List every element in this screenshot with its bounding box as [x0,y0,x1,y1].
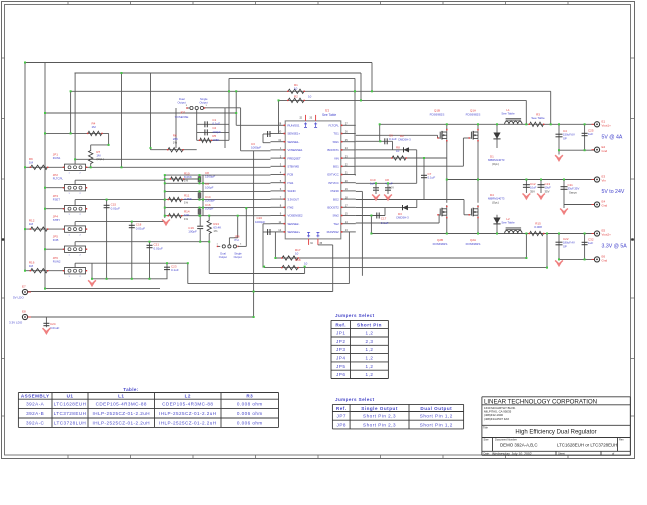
svg-text:Gnd: Gnd [602,259,608,263]
svg-text:Dual: Dual [179,97,185,101]
svg-text:L2: L2 [185,394,191,399]
svg-text:Rev: Rev [619,438,624,442]
svg-text:JP8: JP8 [337,422,346,427]
svg-text:IHLP-2525CZ-01-2.2uH: IHLP-2525CZ-01-2.2uH [92,420,150,425]
svg-text:105K: 105K [212,138,219,142]
svg-text:JP5: JP5 [336,364,345,369]
svg-text:STBY: STBY [53,218,60,222]
svg-text:1%: 1% [184,201,189,205]
svg-text:RUN1: RUN1 [53,156,61,160]
svg-text:BG2: BG2 [333,197,339,201]
svg-text:CMDSH-3: CMDSH-3 [396,216,409,220]
svg-text:FCB: FCB [53,238,59,242]
svg-text:1,2: 1,2 [366,347,374,352]
svg-text:1,2: 1,2 [366,364,374,369]
svg-text:5V @ 4A: 5V @ 4A [602,135,623,141]
svg-text:0.006 ohm: 0.006 ohm [237,411,263,416]
svg-text:1000pF: 1000pF [251,146,261,150]
svg-text:SENSE2+: SENSE2+ [287,230,300,234]
svg-text:Short Pin 2,3: Short Pin 2,3 [363,422,396,427]
svg-text:IHLP-2525CZ-01-2.2uH: IHLP-2525CZ-01-2.2uH [159,420,217,425]
svg-text:Ref.: Ref. [336,406,347,411]
svg-text:2,3: 2,3 [366,339,374,344]
svg-text:1500pF: 1500pF [205,175,215,179]
svg-text:VIN: VIN [334,156,339,160]
svg-text:Output: Output [219,255,227,259]
svg-text:0.008 ohm: 0.008 ohm [237,402,263,407]
svg-text:35V: 35V [530,189,535,193]
svg-text:Sheet: Sheet [558,451,565,455]
svg-text:FCB: FCB [287,173,293,177]
svg-text:PGND: PGND [331,189,340,193]
svg-text:CDEP105-4R3MC-88: CDEP105-4R3MC-88 [96,402,147,407]
svg-text:3.3V @ 5A: 3.3V @ 5A [602,244,628,250]
svg-text:100pF: 100pF [212,130,221,134]
svg-text:Document Number: Document Number [495,438,517,442]
svg-text:VOSENSE: VOSENSE [175,115,189,119]
svg-text:FLTCPL: FLTCPL [329,124,340,128]
svg-text:(Opt.): (Opt.) [96,157,104,161]
svg-text:of: of [612,451,614,455]
svg-text:CMDSH-3: CMDSH-3 [398,138,411,142]
svg-text:1,2: 1,2 [366,331,374,336]
svg-text:JP4: JP4 [336,355,345,360]
svg-text:FLTCPL: FLTCPL [53,176,64,180]
svg-text:Vin: Vin [602,179,607,183]
svg-text:VOSENSE1: VOSENSE1 [287,148,302,152]
svg-text:IHLP-2525CZ-01-2.2uH: IHLP-2525CZ-01-2.2uH [92,411,150,416]
svg-text:FDS6982S: FDS6982S [433,242,448,246]
svg-text:Single: Single [234,252,242,256]
svg-text:Title: Title [483,425,488,429]
svg-text:35V: 35V [545,189,550,193]
svg-text:INTVCC: INTVCC [328,181,339,185]
svg-text:10: 10 [295,252,299,256]
svg-text:STBYMD: STBYMD [287,165,300,169]
svg-text:1uF: 1uF [588,132,593,136]
svg-text:E8: E8 [22,310,26,314]
svg-text:CDEP105-4R3MC-88: CDEP105-4R3MC-88 [162,402,213,407]
svg-text:Single: Single [200,97,208,101]
svg-text:(408)434-0507 FAX: (408)434-0507 FAX [484,417,509,421]
svg-text:See Table: See Table [501,112,515,116]
svg-text:See Table: See Table [501,221,515,225]
svg-text:JP7: JP7 [180,111,186,115]
svg-text:10: 10 [308,94,312,98]
svg-text:0.01uF: 0.01uF [136,226,146,230]
svg-text:Dual: Dual [220,252,226,256]
svg-text:10: 10 [396,149,400,153]
svg-text:100pF: 100pF [188,230,197,234]
svg-text:Jumpers Select: Jumpers Select [335,397,375,402]
svg-text:Date:: Date: [484,451,490,455]
svg-text:1000pF: 1000pF [255,220,265,224]
svg-text:BG1: BG1 [333,165,339,169]
svg-text:1uF: 1uF [370,182,375,186]
svg-text:FSET: FSET [53,197,60,201]
svg-text:1,2: 1,2 [366,372,374,377]
svg-text:1M: 1M [92,125,97,129]
svg-text:RUN/SS2: RUN/SS2 [327,230,339,234]
svg-text:Ref.: Ref. [335,323,346,328]
svg-text:U1: U1 [67,394,74,399]
svg-text:See Table: See Table [531,116,545,120]
svg-text:Output: Output [178,100,186,104]
svg-text:0.1uF: 0.1uF [428,176,436,180]
svg-text:FDS6982S: FDS6982S [430,112,445,116]
svg-text:JP7: JP7 [337,414,346,419]
svg-text:LTC3728LUH: LTC3728LUH [54,420,86,425]
svg-text:C17: C17 [381,216,387,220]
svg-text:JP3: JP3 [336,347,345,352]
svg-text:See Table: See Table [322,113,336,117]
svg-text:1000pF: 1000pF [205,199,215,203]
svg-text:BOOST1: BOOST1 [327,148,339,152]
svg-text:1M: 1M [29,264,34,268]
svg-text:0.1uF: 0.1uF [171,268,179,272]
svg-text:LTC3728EUH: LTC3728EUH [54,411,87,416]
svg-text:10V: 10V [389,185,394,189]
svg-text:0.008: 0.008 [534,225,542,229]
svg-text:Wednesday, July 10, 2002: Wednesday, July 10, 2002 [492,452,532,456]
svg-text:Single Output: Single Output [361,406,398,411]
svg-text:1M: 1M [29,222,34,226]
svg-text:RUN/SS1: RUN/SS1 [287,124,299,128]
svg-text:SP: SP [563,136,567,140]
svg-text:High Efficiency Dual Regulator: High Efficiency Dual Regulator [515,430,596,436]
svg-text:JP6: JP6 [336,372,345,377]
svg-text:0.1uF: 0.1uF [212,122,220,126]
svg-text:392A-A: 392A-A [26,402,45,407]
svg-text:Table:: Table: [123,387,139,392]
svg-text:ITH1: ITH1 [287,181,293,185]
svg-text:TG1: TG1 [333,132,339,136]
svg-text:100pF: 100pF [205,207,214,211]
svg-text:FREQSET: FREQSET [287,156,300,160]
svg-text:0.01uF: 0.01uF [154,246,164,250]
svg-text:Short Pin 1,2: Short Pin 1,2 [420,414,453,419]
svg-text:Size: Size [484,438,490,442]
svg-text:1,2: 1,2 [366,355,374,360]
svg-text:BOOST2: BOOST2 [327,206,339,210]
svg-text:LINEAR TECHNOLOGY CORPORATION: LINEAR TECHNOLOGY CORPORATION [484,399,597,406]
svg-text:FDS6982S: FDS6982S [466,242,481,246]
svg-text:1M: 1M [29,160,34,164]
svg-text:Short Pin 1,2: Short Pin 1,2 [420,422,453,427]
svg-text:RUN2: RUN2 [53,259,61,263]
svg-text:JP2: JP2 [336,339,345,344]
svg-text:SENSE2-: SENSE2- [287,222,299,226]
svg-text:IHLP-2525CZ-01-2.2uH: IHLP-2525CZ-01-2.2uH [159,411,217,416]
svg-text:FDS6982S: FDS6982S [466,112,481,116]
svg-text:5V to 24V: 5V to 24V [602,189,625,195]
svg-text:TG2: TG2 [333,222,339,226]
svg-text:LTC1628EUH or LTC3728EUH: LTC1628EUH or LTC3728EUH [557,442,617,447]
svg-text:Short Pin 2,3: Short Pin 2,3 [363,414,396,419]
svg-text:R2: R2 [294,94,298,98]
svg-text:VOSENSE2: VOSENSE2 [287,214,302,218]
svg-text:0.1uF: 0.1uF [381,221,389,225]
svg-text:SENSE1+: SENSE1+ [287,132,300,136]
svg-text:Vout2+: Vout2+ [602,233,612,237]
svg-text:0.1uF: 0.1uF [389,137,397,141]
svg-text:(Opt.): (Opt.) [492,200,499,204]
svg-text:EXTVCC: EXTVCC [327,173,339,177]
svg-text:ITH: ITH [234,238,239,242]
svg-text:U1: U1 [325,109,329,113]
svg-text:3.3V LDO: 3.3V LDO [9,321,23,325]
svg-text:1uF: 1uF [588,241,593,245]
svg-text:Short Pin: Short Pin [357,323,382,328]
svg-text:SGND: SGND [287,189,296,193]
svg-text:SENSE1-: SENSE1- [287,140,299,144]
svg-text:SW1: SW1 [333,140,340,144]
svg-text:SP: SP [563,244,567,248]
svg-text:1%: 1% [184,217,189,221]
svg-text:0.01uF: 0.01uF [50,326,60,330]
svg-text:Output: Output [234,255,242,259]
svg-text:ITH2: ITH2 [287,206,293,210]
svg-text:Sanyo: Sanyo [569,190,577,194]
svg-text:3.3VOUT: 3.3VOUT [287,197,299,201]
svg-text:Output: Output [200,100,208,104]
svg-text:R3: R3 [246,394,253,399]
svg-text:L1: L1 [118,394,124,399]
svg-text:Gnd: Gnd [602,149,608,153]
svg-text:1%: 1% [173,141,178,145]
svg-text:0.01uF: 0.01uF [111,206,121,210]
svg-text:DEMO 392A-A,B,C: DEMO 392A-A,B,C [500,442,538,447]
svg-text:5V LDO: 5V LDO [13,296,24,300]
svg-text:392A-C: 392A-C [26,420,45,425]
svg-text:JP1: JP1 [336,331,345,336]
svg-text:100pF: 100pF [205,186,214,190]
svg-text:Dual Output: Dual Output [420,406,452,411]
svg-text:(Opt.): (Opt.) [492,162,499,166]
svg-text:LTC1628EUH: LTC1628EUH [54,402,87,407]
svg-text:E7: E7 [22,285,26,289]
svg-text:10: 10 [304,262,308,266]
svg-text:R18: R18 [295,258,301,262]
svg-text:Vout1+: Vout1+ [602,124,612,128]
svg-text:Gnd: Gnd [602,204,608,208]
svg-text:10: 10 [294,86,298,90]
svg-text:0.006 ohm: 0.006 ohm [237,420,263,425]
svg-text:ASSEMBLY: ASSEMBLY [21,394,50,399]
svg-text:Jumpers Select: Jumpers Select [335,313,375,318]
svg-text:SW2: SW2 [333,214,340,218]
svg-text:392A-B: 392A-B [26,411,44,416]
svg-text:1%: 1% [184,179,189,183]
svg-text:1%: 1% [213,229,218,233]
